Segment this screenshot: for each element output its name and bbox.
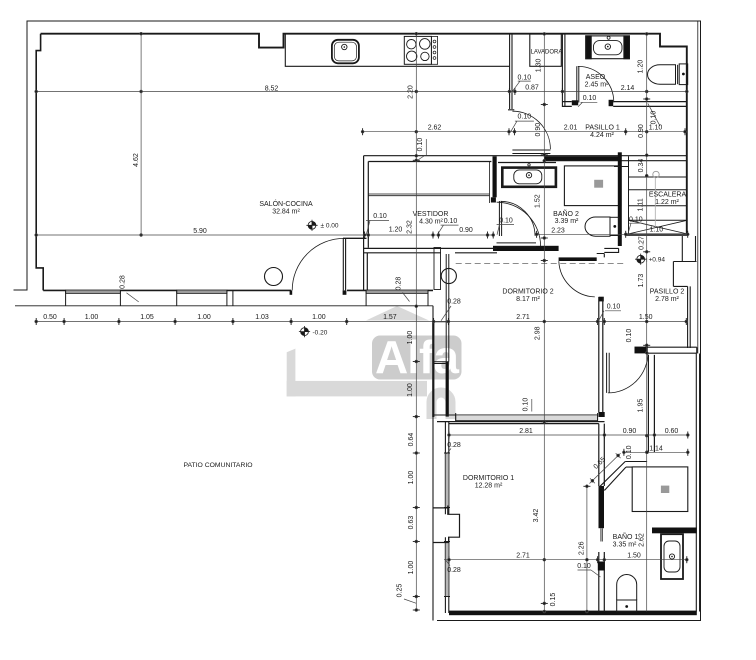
wall: east upper <box>686 46 688 237</box>
svg-text:2.62: 2.62 <box>428 125 442 132</box>
svg-text:0.50: 0.50 <box>43 314 57 321</box>
wall: dorm2 west strip <box>446 254 449 362</box>
svg-text:0.10: 0.10 <box>373 213 387 220</box>
door: aseo arc <box>578 66 614 102</box>
facade line east <box>697 21 699 354</box>
wall: kitchen/lavadora partition <box>508 34 514 110</box>
aseo washbasin <box>586 36 630 59</box>
leader 0.28 dorm2 west <box>441 306 451 321</box>
svg-text:1.00: 1.00 <box>197 314 211 321</box>
svg-text:ASEO: ASEO <box>586 74 606 81</box>
wall: east lower <box>696 354 699 612</box>
wall: building south (thick) <box>449 611 697 616</box>
leader 0.10 vestidor west <box>366 220 389 234</box>
svg-text:1.11: 1.11 <box>638 198 645 211</box>
dim 5.90 / vestidor row y=235 <box>36 234 493 236</box>
wall: pasillo2 south <box>635 347 697 353</box>
door: aseo jambs <box>572 100 578 105</box>
svg-text:0.64: 0.64 <box>408 433 415 447</box>
door: pasillo2 leaf <box>607 353 610 393</box>
door: vestidor-dorm2 leaf <box>497 243 537 247</box>
window: dorm1 west 1 <box>444 453 450 508</box>
bano2 shower tray <box>564 166 621 206</box>
leader 0.10 aseo <box>578 102 597 107</box>
svg-text:PATIO COMUNITARIO: PATIO COMUNITARIO <box>183 462 252 469</box>
dim 2.62/2.01/1.10 row y=131.7 <box>363 131 687 133</box>
circle salon <box>265 268 283 286</box>
window: salon 1 <box>66 290 121 306</box>
wall: salon south with window openings <box>43 289 433 291</box>
level marker +0.94 <box>635 254 646 265</box>
leader 0.10 vestidor top wall <box>417 139 426 161</box>
svg-text:PASILLO 1: PASILLO 1 <box>585 124 620 131</box>
svg-text:0.10: 0.10 <box>577 563 591 570</box>
svg-text:2.78 m²: 2.78 m² <box>655 296 679 303</box>
svg-text:2.14: 2.14 <box>621 85 635 92</box>
door: pasillo2 arc <box>608 353 648 393</box>
door: salon-patio arc <box>292 238 344 290</box>
dim line 8.52 row y=91.5 <box>36 91 687 93</box>
svg-text:± 0.00: ± 0.00 <box>321 223 339 230</box>
svg-text:0.10: 0.10 <box>651 111 658 125</box>
svg-text:4.24 m²: 4.24 m² <box>590 132 614 139</box>
svg-text:0.90: 0.90 <box>535 123 542 137</box>
wall stub bano2 NE <box>614 166 629 168</box>
svg-text:0.34: 0.34 <box>638 159 645 173</box>
svg-text:ESCALERA: ESCALERA <box>649 191 687 198</box>
kitchen sink <box>332 40 359 64</box>
svg-text:0.10: 0.10 <box>629 217 643 224</box>
svg-text:LAVADORA: LAVADORA <box>531 50 563 56</box>
wall: dorm2 east <box>599 297 603 413</box>
svg-text:0.28: 0.28 <box>120 275 127 289</box>
leader 0.28 dorm1 win2 <box>446 561 450 566</box>
svg-text:2.26: 2.26 <box>578 541 585 555</box>
window: dorm1 west 2 <box>444 542 450 597</box>
dim row 1.14 y=452.3 <box>624 451 688 453</box>
door: dorm2 leaf <box>559 257 597 261</box>
leader 0.28 window1 <box>127 293 139 302</box>
watermark Alfa logo <box>287 306 462 419</box>
wall stub salon door to vestidor <box>343 237 367 239</box>
svg-text:1.95: 1.95 <box>637 399 644 413</box>
level marker ±0.00 <box>306 220 317 231</box>
window: salon 2 <box>177 290 233 306</box>
leader 0.28 dorm1 win1 <box>447 449 452 455</box>
vestidor closet <box>368 162 489 204</box>
svg-text:1.00: 1.00 <box>85 314 99 321</box>
svg-text:VESTIDOR: VESTIDOR <box>413 211 449 218</box>
wall: dorm2 north step <box>597 248 619 257</box>
svg-text:0.15: 0.15 <box>550 593 557 607</box>
svg-text:1.00: 1.00 <box>408 471 415 485</box>
kitchen stove <box>404 36 437 64</box>
circle vestidor <box>441 268 456 283</box>
level marker -0.20 <box>299 326 310 337</box>
dim vertical chain x=416.3 <box>415 34 417 611</box>
leader 0.10 dorm2 east <box>599 311 622 321</box>
svg-text:0.28: 0.28 <box>447 442 461 449</box>
svg-text:1.05: 1.05 <box>140 314 154 321</box>
leader 0.10 escalera top <box>648 103 660 126</box>
door: bano2 arc <box>501 201 536 236</box>
svg-text:0.60: 0.60 <box>665 428 679 435</box>
leader 0.10 pasillo1 <box>511 121 534 131</box>
svg-text:0.10: 0.10 <box>517 114 531 121</box>
shower diagonal wall <box>599 462 626 491</box>
door: salon-pasillo1 leaf <box>512 150 550 154</box>
wall: armario west <box>648 355 654 452</box>
svg-text:1.00: 1.00 <box>407 331 414 345</box>
svg-text:0.10: 0.10 <box>517 74 531 81</box>
svg-text:0.28: 0.28 <box>396 277 403 291</box>
svg-text:2.20: 2.20 <box>408 85 415 99</box>
wall corner cap dorm2 SE <box>599 412 605 417</box>
dashed beam line <box>456 263 626 265</box>
door: bano2 leaf <box>499 201 501 236</box>
svg-text:BAÑO 1: BAÑO 1 <box>613 532 639 541</box>
svg-text:0.10: 0.10 <box>583 95 597 102</box>
svg-text:1.50: 1.50 <box>627 552 641 559</box>
svg-text:1.52: 1.52 <box>535 194 542 208</box>
svg-text:8.52: 8.52 <box>265 85 279 92</box>
door: vestidor-dorm2 arc <box>497 202 541 246</box>
svg-text:+0.94: +0.94 <box>649 257 666 264</box>
svg-text:0.90: 0.90 <box>638 124 645 138</box>
door: salon-pasillo1 arc <box>512 111 550 149</box>
wall: dorm1 west with windows <box>445 422 448 613</box>
svg-text:0.10: 0.10 <box>607 304 621 311</box>
dim 2.26 vertical x=586.9 <box>586 486 588 612</box>
svg-text:1.20: 1.20 <box>637 60 644 74</box>
svg-text:32.84 m²: 32.84 m² <box>272 209 300 216</box>
svg-text:1.22 m²: 1.22 m² <box>655 199 679 206</box>
svg-text:8.17 m²: 8.17 m² <box>516 296 540 303</box>
svg-text:2.71: 2.71 <box>516 552 530 559</box>
leader 0.10 bano2 west <box>497 225 514 235</box>
svg-text:2.71: 2.71 <box>516 314 530 321</box>
svg-text:2.62: 2.62 <box>638 533 645 547</box>
lavadora box <box>530 34 562 66</box>
svg-text:0.90: 0.90 <box>459 227 473 234</box>
svg-text:-0.20: -0.20 <box>313 329 328 336</box>
svg-text:0.27: 0.27 <box>638 236 645 250</box>
dim 0.65 diagonal <box>590 453 621 483</box>
radiator vestidor <box>434 248 441 290</box>
wall: aseo south / pasillo1 north <box>562 102 686 107</box>
patio ground line <box>15 305 433 307</box>
svg-text:2.01: 2.01 <box>564 124 578 131</box>
dim row 2.81/0.90/0.60 y=435 <box>449 434 688 436</box>
wall: lavadora east / aseo west <box>562 34 565 107</box>
svg-text:0.10: 0.10 <box>444 218 458 225</box>
patio west line <box>432 306 434 621</box>
bano1 toilet <box>617 575 637 612</box>
svg-text:4.30 m²: 4.30 m² <box>419 219 443 226</box>
svg-text:0.10: 0.10 <box>626 445 633 459</box>
window: salon 3 <box>366 290 428 306</box>
dim vertical chain x=646.7 <box>646 34 648 612</box>
leader 0.10 lavadora <box>513 81 531 91</box>
svg-text:2.98: 2.98 <box>535 326 542 340</box>
svg-text:1.00: 1.00 <box>312 314 326 321</box>
svg-text:1.50: 1.50 <box>639 314 653 321</box>
svg-text:1.00: 1.00 <box>408 561 415 575</box>
bano1 washbasin <box>661 534 683 579</box>
bano2 washbasin <box>502 164 556 187</box>
svg-text:1.14: 1.14 <box>649 445 663 452</box>
svg-text:1.03: 1.03 <box>255 314 269 321</box>
bano2 toilet <box>585 217 619 236</box>
level cross x=646.7 +0.94 leader <box>646 258 648 262</box>
door: dorm2 jamb cap <box>599 297 604 302</box>
svg-text:0.63: 0.63 <box>408 516 415 530</box>
svg-text:12.28 m²: 12.28 m² <box>475 482 503 489</box>
svg-text:0.25: 0.25 <box>397 584 404 598</box>
door: salon-patio leaf <box>343 238 345 290</box>
wall: dorm1 east <box>599 424 605 612</box>
leader 0.28 window3 <box>403 293 410 302</box>
svg-text:5.90: 5.90 <box>193 228 207 235</box>
svg-text:BAÑO 2: BAÑO 2 <box>553 209 579 218</box>
svg-text:DORMITORIO 2: DORMITORIO 2 <box>502 288 553 295</box>
wall: bano2 east (black) <box>618 152 622 246</box>
kitchen counter <box>285 34 509 67</box>
svg-text:DORMITORIO 1: DORMITORIO 1 <box>463 475 514 482</box>
door: salon jamb caps <box>290 290 293 294</box>
svg-text:1.73: 1.73 <box>638 274 645 288</box>
wall: bano1 north band <box>652 528 697 534</box>
wall: escalera SE jog <box>673 236 696 348</box>
dim row 2.71/1.50 y=559.7 <box>444 559 687 561</box>
shower tray bano1 <box>632 467 688 512</box>
wall: salon west <box>36 34 43 291</box>
svg-text:1.20: 1.20 <box>389 226 403 233</box>
vestidor west wall <box>364 156 369 291</box>
svg-text:1.00: 1.00 <box>407 383 414 397</box>
svg-text:0.90: 0.90 <box>623 428 637 435</box>
escalera south thick band <box>625 233 688 236</box>
door: dorm2 arc <box>559 261 595 297</box>
wall: apartment north <box>41 34 687 48</box>
wall: dorm1 north <box>437 422 605 424</box>
svg-text:1.10: 1.10 <box>650 227 664 234</box>
duct circle escalera <box>653 171 659 177</box>
svg-text:2.81: 2.81 <box>519 428 533 435</box>
svg-text:0.28: 0.28 <box>447 299 461 306</box>
wall: bano2 south (black band) <box>493 246 559 251</box>
leader 0.10 escalera <box>628 223 642 233</box>
window: dorm2 south <box>456 413 598 422</box>
dim 2.23 row y=234.3 <box>537 233 688 235</box>
svg-text:2.32: 2.32 <box>407 220 414 234</box>
dim 4.62 vertical x=141.1 <box>140 34 142 235</box>
svg-text:0.10: 0.10 <box>523 398 530 412</box>
svg-text:1.30: 1.30 <box>536 58 543 72</box>
svg-text:0.10: 0.10 <box>626 329 633 343</box>
escalera box <box>629 156 687 234</box>
svg-text:3.35 m²: 3.35 m² <box>613 542 637 549</box>
wall: patio west thick part <box>432 322 434 418</box>
svg-text:0.10: 0.10 <box>499 217 513 224</box>
wall: pasillo1 south black band <box>544 156 618 161</box>
dim window row y=321.5 <box>36 321 686 323</box>
wall: vestidor south <box>364 248 497 252</box>
leader 0.10 bano1 door <box>578 570 601 577</box>
svg-text:1.57: 1.57 <box>383 314 397 321</box>
wall: pasillo1 south / vestidor north <box>364 156 687 163</box>
leader 0.10 dorm2 south window <box>531 399 533 412</box>
svg-text:3.39 m²: 3.39 m² <box>555 218 579 225</box>
dim vertical chain x=544.3 <box>543 34 545 612</box>
svg-text:0.10: 0.10 <box>417 138 424 152</box>
svg-text:PASILLO 2: PASILLO 2 <box>650 288 685 295</box>
door: aseo leaf <box>577 66 579 102</box>
svg-text:4.62: 4.62 <box>133 153 140 167</box>
svg-text:0.28: 0.28 <box>447 567 461 574</box>
svg-text:2.45 m²: 2.45 m² <box>585 82 609 89</box>
svg-text:3.42: 3.42 <box>533 509 540 523</box>
escalera X hatch <box>629 220 688 234</box>
svg-text:SALÓN-COCINA: SALÓN-COCINA <box>259 199 313 208</box>
leader 0.10 vestidor east <box>437 225 458 235</box>
shower top wall <box>625 462 647 468</box>
pillar bump dorm1 <box>433 506 460 543</box>
aseo toilet <box>648 64 688 85</box>
wall: vestidor east / bano2 west <box>493 156 497 197</box>
svg-text:0.87: 0.87 <box>525 85 539 92</box>
svg-text:1.10: 1.10 <box>649 124 663 131</box>
svg-text:2.23: 2.23 <box>551 227 565 234</box>
